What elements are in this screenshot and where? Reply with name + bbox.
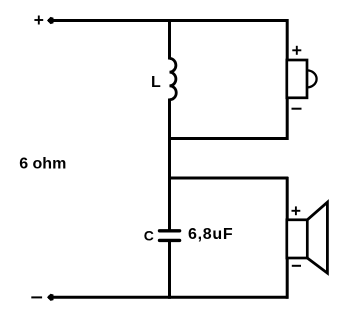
wire: middle vertical (capacitor to bottom rail) [168,241,171,299]
tweeter polarity - [292,108,302,110]
capacitor C top plate [160,229,180,232]
wire: tweeter branch vertical [286,19,289,140]
svg-text:C: C [144,228,154,244]
wire: middle vertical (top rail to inductor) [168,19,171,60]
wire: middle vertical (inductor to capacitor) [168,99,171,231]
input dot (positive lead) [47,17,54,24]
wire: bottom rail [48,296,288,299]
speaker tweeter body [287,60,307,98]
capacitor C bottom plate [160,239,180,242]
woofer polarity - [292,265,301,267]
input dot (negative lead) [47,294,54,301]
svg-text:6 ohm: 6 ohm [19,155,66,172]
wire: tweeter return (horizontal to middle node) [168,137,288,140]
wire: top rail [48,19,288,22]
tweeter polarity + [292,46,301,55]
wire: woofer branch vertical [286,177,289,299]
speaker tweeter dome [307,70,317,87]
svg-text:L: L [151,74,161,91]
inductor L [170,58,177,99]
speaker woofer cone [307,202,327,273]
speaker woofer body [287,220,308,258]
wire: woofer feed (horizontal from middle node) [168,177,288,180]
terminal - (input negative) [31,296,42,298]
svg-text:6,8uF: 6,8uF [188,226,233,243]
woofer polarity + [292,206,301,215]
terminal + (input positive) [34,16,43,25]
